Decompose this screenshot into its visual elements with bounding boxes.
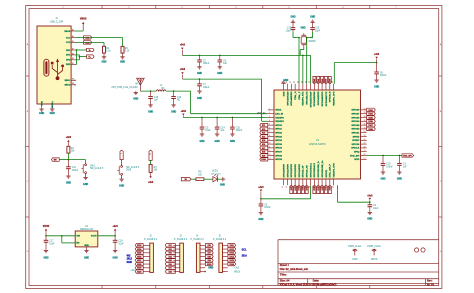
wire C12 to crystal — [293, 32, 300, 39]
svg-text:GND: GND — [300, 27, 305, 29]
svg-text:GND: GND — [258, 219, 263, 221]
global label 0 (IO0) — [120, 150, 123, 165]
svg-text:GND: GND — [133, 99, 138, 101]
wire U1 bottom to +3v3/C9 — [261, 185, 311, 199]
svg-text:+3v3: +3v3 — [113, 226, 119, 228]
svg-text:VDD3P3_CPU: VDD3P3_CPU — [333, 91, 335, 106]
title block text Rev — [427, 280, 433, 283]
junction rail3-rail2 — [261, 117, 263, 119]
svg-text:NC: NC — [177, 100, 181, 102]
svg-text:GND: GND — [215, 141, 220, 143]
svg-text:32: 32 — [364, 139, 366, 141]
svg-text:46: 46 — [282, 186, 284, 188]
global label CC1 — [84, 36, 92, 40]
svg-text:EN: EN — [76, 243, 79, 245]
svg-text:100nF: 100nF — [72, 170, 79, 172]
svg-text:C10: C10 — [236, 127, 241, 129]
svg-text:10uF: 10uF — [205, 130, 211, 132]
pin header J5 — [213, 236, 228, 273]
svg-text:SDA: SDA — [242, 255, 247, 258]
power symbol +3v3 at C9 — [258, 187, 264, 199]
wire LED1 to ground — [217, 178, 222, 180]
global label D- — [87, 48, 94, 52]
svg-text:34: 34 — [364, 131, 366, 133]
junction VBUS C17 — [45, 235, 47, 237]
svg-text:GND: GND — [148, 111, 153, 113]
global labels on U1 left pins — [260, 123, 268, 161]
note SDA — [242, 255, 247, 258]
global labels J2 — [135, 244, 143, 274]
svg-text:GPIO14/FSPI: GPIO14/FSPI — [298, 164, 301, 178]
antenna ANT1 — [111, 78, 144, 91]
wire CC2 net — [75, 41, 104, 43]
svg-text:GND: GND — [380, 178, 385, 180]
svg-text:100nF: 100nF — [386, 166, 393, 168]
title block text File — [280, 268, 309, 271]
global labels on U1 right pins — [367, 108, 376, 131]
svg-text:Title:: Title: — [280, 273, 287, 277]
wire xtal vertical 1 — [298, 38, 300, 84]
regulator U2 body — [75, 231, 98, 247]
led LED1 — [211, 170, 221, 182]
wire usb D+ pair bridge — [75, 55, 79, 60]
svg-text:XTAL_N: XTAL_N — [294, 91, 297, 100]
mounting hole H2 — [421, 248, 425, 252]
svg-text:IO36: IO36 — [137, 256, 141, 258]
svg-text:VDD3P3_RTC: VDD3P3_RTC — [303, 91, 305, 106]
svg-text:31: 31 — [364, 143, 366, 145]
svg-text:GPIO43/TXD0: GPIO43/TXD0 — [286, 91, 289, 106]
svg-text:GND: GND — [283, 91, 285, 96]
capacitor C6 — [218, 55, 228, 66]
svg-text:7: 7 — [269, 131, 270, 133]
svg-text:1: 1 — [269, 108, 270, 110]
svg-text:GPIO44/RXD0: GPIO44/RXD0 — [290, 91, 293, 106]
svg-text:18: 18 — [294, 81, 296, 83]
svg-text:IO39: IO39 — [137, 268, 141, 270]
local label VDD_IN — [257, 113, 266, 115]
wire SW2 to ground — [121, 175, 123, 179]
power symbol VBUS at J1 — [80, 18, 87, 32]
svg-text:A5: A5 — [72, 35, 74, 38]
global labels on U1 top pins — [313, 76, 332, 83]
svg-text:37: 37 — [364, 120, 366, 122]
svg-text:Date:: Date: — [313, 280, 319, 283]
resistor R5 — [196, 171, 204, 180]
J1 pin B8 SBU2 — [64, 83, 75, 86]
svg-text:SPID: SPID — [354, 159, 360, 161]
global label D+ — [87, 55, 94, 59]
wire to D- label — [76, 49, 87, 51]
wire EN label to node — [59, 159, 68, 161]
svg-text:GPIO6: GPIO6 — [275, 148, 282, 150]
svg-text:GND: GND — [41, 101, 43, 106]
svg-text:DN2: DN2 — [66, 64, 71, 66]
svg-text:C18: C18 — [118, 241, 123, 243]
power symbol +3v3 rail3 — [181, 111, 187, 118]
svg-text:1uF: 1uF — [220, 130, 225, 132]
junction C19 — [382, 155, 384, 157]
wire feed to corner — [166, 90, 190, 92]
svg-text:IO15: IO15 — [230, 260, 234, 262]
svg-text:ANT_PCB_2.4G_U5.24M: ANT_PCB_2.4G_U5.24M — [111, 86, 137, 89]
svg-text:GND: GND — [217, 73, 222, 75]
ground below SW1 — [83, 178, 88, 186]
svg-text:GPIO7: GPIO7 — [275, 152, 282, 154]
svg-text:GND: GND — [374, 86, 379, 88]
svg-text:GND: GND — [208, 268, 213, 270]
svg-text:GPIO42/MTMS: GPIO42/MTMS — [313, 91, 316, 106]
capacitor C14 — [215, 118, 226, 134]
wire rail2 +3v3 — [183, 79, 262, 117]
J1 pin B6 DP2 — [66, 58, 75, 61]
svg-text:A4: A4 — [72, 28, 74, 31]
USB-C receptacle icon — [44, 59, 49, 76]
svg-text:LNA_IN: LNA_IN — [275, 113, 283, 116]
note SCL — [242, 249, 247, 252]
svg-text:45: 45 — [286, 186, 288, 188]
svg-text:B7: B7 — [72, 63, 74, 65]
power flag PFLAG1 on GND — [348, 245, 361, 261]
ground below C11 — [66, 176, 71, 184]
wire R4 to EN node — [67, 153, 69, 160]
svg-text:IO38: IO38 — [330, 79, 332, 83]
wire feed down to LNA — [191, 91, 268, 114]
svg-text:GPIO0: GPIO0 — [275, 125, 282, 127]
capacitor C19 — [381, 156, 394, 172]
svg-text:100nF: 100nF — [203, 63, 210, 65]
global label 15 (LED) — [181, 178, 196, 182]
svg-text:IO13: IO13 — [230, 253, 234, 255]
ground below R2 — [120, 53, 125, 63]
svg-text:11: 11 — [269, 146, 271, 148]
wire usb D- pair bridge — [75, 50, 77, 64]
svg-text:1uF: 1uF — [223, 63, 228, 65]
global label 18 — [149, 150, 152, 164]
svg-text:GPIO35: GPIO35 — [351, 117, 360, 119]
svg-text:C16: C16 — [177, 97, 182, 99]
svg-text:GND: GND — [84, 245, 89, 247]
junction C4 — [369, 201, 371, 203]
capacitor C17 — [44, 236, 55, 251]
svg-text:VBUS: VBUS — [80, 18, 87, 21]
ground below C4 — [367, 213, 372, 221]
global labels on U1 bottom pins — [290, 185, 332, 193]
svg-text:100nF: 100nF — [203, 87, 210, 89]
svg-text:SBU2: SBU2 — [64, 85, 71, 87]
svg-text:IO6: IO6 — [169, 264, 172, 266]
svg-text:SPIHD: SPIHD — [353, 136, 360, 138]
resistor R4 — [67, 146, 75, 153]
svg-text:XTAL_P: XTAL_P — [298, 91, 301, 100]
power symbol +3v3 below R3 — [148, 172, 154, 184]
svg-text:10uF: 10uF — [118, 243, 124, 245]
svg-text:Rev:: Rev: — [427, 280, 433, 283]
svg-text:IO18: IO18 — [314, 186, 316, 190]
ground label crystal case — [300, 27, 305, 29]
svg-text:9: 9 — [269, 139, 270, 141]
svg-text:17: 17 — [290, 81, 292, 83]
svg-text:38: 38 — [364, 116, 366, 118]
svg-text:GPIO41/MTDI: GPIO41/MTDI — [317, 91, 320, 105]
ground below C19 — [380, 172, 385, 180]
svg-text:GND: GND — [367, 219, 372, 221]
J1 pin A6 DP1 — [66, 52, 75, 56]
ground below C9 — [258, 213, 263, 221]
svg-text:GPIO19/USB_D-: GPIO19/USB_D- — [318, 161, 320, 178]
svg-text:Sheet: /: Sheet: / — [280, 264, 289, 267]
svg-text:30: 30 — [364, 146, 366, 148]
svg-text:GPIO46/LOG: GPIO46/LOG — [306, 91, 309, 105]
wire antenna feed — [140, 90, 156, 92]
wire EN tie — [61, 235, 75, 243]
svg-text:IO6: IO6 — [208, 249, 211, 251]
svg-text:GPIO15_XP: GPIO15_XP — [303, 165, 305, 178]
svg-text:B5: B5 — [72, 41, 74, 43]
svg-text:SBU1: SBU1 — [64, 80, 71, 82]
svg-text:USB_C_16P: USB_C_16P — [50, 21, 64, 24]
svg-text:+3v3: +3v3 — [367, 195, 373, 197]
svg-text:IO19: IO19 — [318, 186, 320, 190]
svg-text:PWR_FLAG: PWR_FLAG — [348, 245, 361, 248]
inductor L1 — [156, 85, 166, 91]
svg-text:GND: GND — [119, 186, 124, 188]
svg-text:GND: GND — [352, 258, 358, 261]
power flag PFLAG2 on VBUS — [368, 245, 381, 261]
ground below C14 — [215, 134, 220, 143]
svg-text:GPIO45/STRAP: GPIO45/STRAP — [309, 91, 312, 107]
junction rail1 C2 — [199, 55, 201, 57]
svg-text:GND: GND — [290, 16, 295, 18]
svg-text:IO10: IO10 — [207, 264, 211, 266]
svg-text:P_IOx08-3.3: P_IOx08-3.3 — [213, 239, 227, 241]
J1 pin A4 VBUS — [64, 28, 75, 32]
wire rail3 +3v3 to chip — [183, 117, 267, 119]
svg-text:IO7: IO7 — [169, 268, 172, 270]
wire top right rail — [334, 63, 376, 84]
svg-text:VDD3P3: VDD3P3 — [275, 117, 284, 119]
global labels J3 — [165, 244, 175, 274]
capacitor C10 — [230, 118, 243, 134]
no-connect J1 SBU2 — [75, 84, 76, 85]
J1 pin B7 DN2 — [66, 63, 75, 66]
capacitor C8 — [374, 63, 387, 80]
U2 pin names — [76, 236, 97, 247]
svg-text:LED1: LED1 — [212, 170, 218, 172]
svg-text:IO8: IO8 — [208, 256, 211, 258]
svg-text:GPIO38_B: GPIO38_B — [330, 91, 332, 102]
svg-text:ANT1: ANT1 — [135, 83, 142, 86]
svg-text:33: 33 — [332, 186, 334, 188]
svg-text:C15: C15 — [154, 97, 159, 99]
svg-text:IO14: IO14 — [298, 186, 301, 190]
wire U2 VOUT to +3v3 — [98, 235, 115, 237]
svg-text:SPICLK: SPICLK — [351, 148, 359, 150]
switch SW2 — [117, 166, 139, 176]
ground below C3 — [397, 172, 402, 180]
junction rail3 C10 — [232, 117, 234, 119]
wire C13 to crystal — [306, 32, 313, 39]
svg-text:GPIO33: GPIO33 — [351, 129, 360, 131]
svg-text:29: 29 — [364, 150, 366, 152]
svg-text:C12: C12 — [287, 28, 292, 30]
svg-text:SPICS0: SPICS0 — [352, 144, 361, 146]
svg-text:Size: A4: Size: A4 — [280, 280, 290, 283]
title block text KiCad version — [280, 284, 337, 287]
svg-text:6: 6 — [269, 127, 270, 129]
svg-text:40MHz: 40MHz — [308, 41, 316, 43]
svg-text:File: S2_mini.kicad_sch: File: S2_mini.kicad_sch — [280, 268, 309, 271]
svg-text:39: 39 — [364, 112, 366, 114]
wire U1 right SPI rail — [367, 155, 402, 157]
ground above C13 — [310, 16, 315, 27]
power text VBUS at J5 — [234, 271, 241, 273]
svg-text:A6: A6 — [72, 52, 74, 55]
wire CC1 net — [75, 37, 123, 39]
ground right of LED1 — [220, 177, 225, 186]
svg-text:+3v3: +3v3 — [148, 182, 154, 184]
capacitor C16 — [171, 91, 182, 105]
svg-text:GND: GND — [39, 113, 44, 115]
capacitor C4 — [368, 202, 379, 212]
svg-text:GND: GND — [171, 111, 176, 113]
svg-text:GPIO18/DAC2: GPIO18/DAC2 — [313, 162, 316, 177]
svg-text:1uF: 1uF — [403, 166, 408, 168]
svg-text:GPIO13/FSPI: GPIO13/FSPI — [295, 164, 297, 178]
power text GND at J4 — [208, 268, 213, 270]
global labels J4 — [205, 244, 213, 266]
svg-text:10uF: 10uF — [373, 208, 379, 210]
capacitor C11 — [66, 160, 79, 176]
svg-text:GPIO39/MTCK: GPIO39/MTCK — [326, 91, 328, 106]
svg-text:GND: GND — [83, 184, 88, 186]
svg-text:22: 22 — [309, 81, 311, 83]
svg-text:IO13: IO13 — [295, 186, 297, 190]
svg-text:VBUS: VBUS — [234, 271, 241, 273]
svg-text:VDD_SPI: VDD_SPI — [403, 155, 412, 157]
svg-text:+3v3: +3v3 — [180, 69, 186, 71]
pin header J2 — [143, 236, 157, 273]
svg-text:GPIO20/USB_D+: GPIO20/USB_D+ — [322, 160, 324, 178]
svg-text:IO12: IO12 — [230, 249, 234, 251]
svg-text:10: 10 — [269, 143, 271, 145]
svg-text:19: 19 — [298, 81, 300, 83]
svg-text:21: 21 — [305, 81, 307, 83]
no-connect J1 SBU1 — [75, 80, 76, 81]
connector J1 USB-C body — [37, 26, 71, 104]
ground below C17 — [43, 251, 48, 260]
svg-text:IO12: IO12 — [291, 186, 293, 190]
ground below U2 — [84, 251, 89, 260]
svg-text:GND: GND — [310, 16, 315, 18]
ground at antenna — [133, 91, 138, 100]
svg-text:GPIO34: GPIO34 — [351, 120, 360, 123]
svg-text:CC2: CC2 — [66, 42, 71, 44]
U2 ground pin — [86, 247, 88, 250]
svg-text:IO40: IO40 — [321, 79, 324, 83]
svg-text:PWR_FLAG: PWR_FLAG — [368, 245, 381, 248]
svg-text:IO3: IO3 — [169, 253, 172, 255]
power symbol +3v3 rail2 — [180, 69, 186, 79]
wire R2 drop — [122, 38, 124, 47]
svg-text:IO16: IO16 — [230, 264, 234, 266]
svg-text:LED_0603: LED_0603 — [211, 173, 221, 175]
svg-text:SPICS1: SPICS1 — [352, 133, 361, 135]
power text +3v3 near J2 — [130, 270, 136, 272]
svg-text:VBUS: VBUS — [43, 226, 50, 228]
svg-text:GND: GND — [220, 184, 225, 186]
svg-text:IO9: IO9 — [208, 260, 211, 262]
svg-text:IO41: IO41 — [317, 79, 320, 83]
svg-text:VDD3P3_CPU: VDD3P3_CPU — [333, 163, 335, 178]
svg-text:28: 28 — [332, 81, 334, 83]
svg-text:2: 2 — [269, 112, 270, 114]
pin header J3 — [173, 236, 187, 273]
ground below C10 — [230, 134, 235, 143]
wire xtal vertical 3 — [306, 38, 308, 84]
svg-text:IO38: IO38 — [137, 264, 141, 266]
ground above C12 — [290, 16, 295, 27]
svg-text:GPIO1: GPIO1 — [275, 129, 282, 131]
svg-text:GPIO3: GPIO3 — [275, 136, 282, 138]
mcu U1 body — [274, 90, 361, 179]
svg-text:C14: C14 — [220, 127, 225, 129]
svg-text:GND: GND — [101, 61, 106, 63]
svg-text:GND: GND — [113, 258, 118, 260]
regulator U2 reference — [80, 226, 93, 231]
svg-text:SW1: SW1 — [90, 165, 96, 167]
svg-text:VDD_IN: VDD_IN — [257, 113, 266, 115]
junction rail2 C7 — [199, 78, 201, 80]
svg-text:13: 13 — [269, 154, 271, 156]
ground at J1 SHELL pin — [50, 109, 55, 115]
svg-text:20: 20 — [301, 81, 303, 83]
svg-text:GND: GND — [50, 113, 55, 115]
svg-text:GPIO36: GPIO36 — [351, 110, 360, 112]
global label VDD_SPI — [402, 154, 414, 158]
power text +3v3 at J5 — [234, 268, 240, 270]
capacitor C5 — [200, 118, 211, 134]
svg-text:VDD3P3: VDD3P3 — [275, 121, 284, 123]
svg-text:6N: 6N — [161, 88, 164, 90]
svg-text:1pF: 1pF — [154, 100, 159, 102]
svg-text:33: 33 — [364, 135, 366, 137]
svg-text:C17: C17 — [49, 241, 54, 243]
svg-text:GPIO16_XN: GPIO16_XN — [307, 165, 309, 178]
ground below C18 — [113, 251, 118, 260]
junction EN node — [68, 159, 70, 161]
svg-text:10uF: 10uF — [49, 243, 55, 245]
junction rail3 C14 — [216, 117, 218, 119]
svg-text:IO11: IO11 — [230, 245, 234, 247]
resistor R2 — [121, 46, 130, 53]
svg-text:IO16: IO16 — [306, 186, 308, 190]
svg-text:A7: A7 — [72, 47, 74, 50]
svg-text:VBUS: VBUS — [64, 31, 71, 33]
svg-text:IO39: IO39 — [326, 79, 328, 83]
svg-text:GND: GND — [43, 258, 48, 260]
svg-text:GPIO12/FSPI: GPIO12/FSPI — [291, 164, 293, 178]
capacitor C7 — [197, 79, 210, 91]
wire VBUS to U2 VIN — [46, 235, 75, 237]
svg-text:GND: GND — [197, 98, 202, 100]
svg-text:IO37: IO37 — [137, 260, 141, 262]
svg-text:GPIO40/MTDO: GPIO40/MTDO — [321, 91, 324, 106]
svg-text:35: 35 — [364, 127, 366, 129]
svg-text:IO2: IO2 — [169, 249, 172, 251]
svg-text:4: 4 — [269, 120, 270, 122]
ground below C6 — [217, 67, 222, 75]
